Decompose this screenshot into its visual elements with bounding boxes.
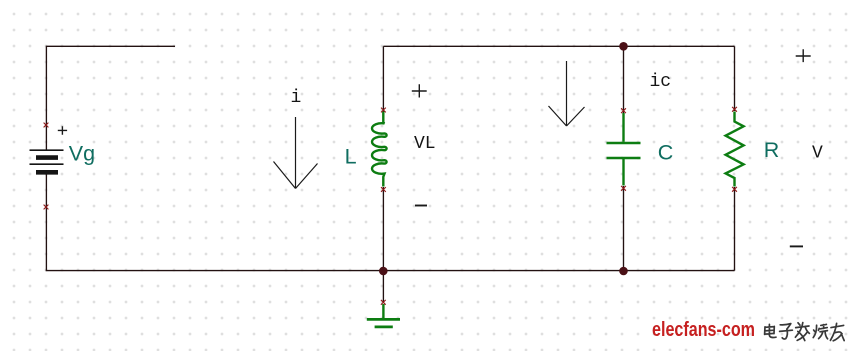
svg-text:V: V <box>812 144 823 164</box>
svg-text:C: C <box>658 141 674 165</box>
svg-text:elecfans-com: elecfans-com <box>652 319 755 341</box>
svg-text:Vg: Vg <box>69 142 95 166</box>
svg-text:VL: VL <box>414 134 436 154</box>
svg-text:L: L <box>345 145 357 169</box>
svg-text:ic: ic <box>650 72 672 92</box>
svg-text:i: i <box>291 88 302 108</box>
svg-text:R: R <box>764 138 780 162</box>
